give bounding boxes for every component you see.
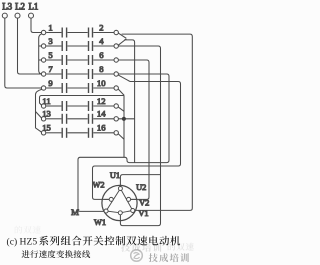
contact K7b bars: [88, 69, 90, 79]
motor M1 stator circle: [102, 185, 137, 220]
terminal W2 mid-left: [109, 197, 113, 201]
wire 6 to U2: [118, 60, 149, 199]
svg-text:8: 8: [99, 64, 103, 74]
junction dot 14: [122, 117, 126, 121]
svg-text:L2: L2: [15, 2, 25, 12]
terminal 10: [114, 86, 118, 90]
blade 10: [118, 89, 124, 95]
blade 8: [118, 75, 130, 81]
svg-text:4: 4: [99, 36, 104, 46]
terminal L3: [2, 13, 7, 18]
svg-text:6: 6: [99, 50, 104, 60]
svg-text:12: 12: [97, 96, 106, 106]
terminal 4: [114, 44, 118, 48]
wire tap to 5: [39, 59, 42, 61]
wire L2 to contact 7: [18, 18, 42, 74]
contact K5a bars: [61, 55, 63, 65]
motor winding triangle: [106, 189, 133, 213]
caption line 1 hanzi: [39, 236, 180, 246]
terminal 13: [41, 117, 45, 121]
contact row 15-16 wire: [46, 132, 61, 134]
caption line 2 hanzi: [22, 250, 91, 258]
terminal 9: [41, 86, 45, 90]
watermark logo: [131, 250, 143, 262]
svg-text:2: 2: [99, 22, 103, 32]
terminal U2 mid-right: [127, 197, 131, 201]
svg-text:U2: U2: [136, 183, 146, 192]
contact K13a bars: [61, 114, 63, 124]
wire 4 to V2: [118, 46, 160, 226]
svg-text:15: 15: [42, 123, 51, 133]
blade 4: [118, 39, 126, 45]
contact K1b bars: [88, 28, 90, 38]
blade 12 to column: [118, 107, 124, 111]
wire 2 to V1: [122, 34, 193, 210]
wire 14 to junction and column: [118, 118, 134, 120]
watermark faint upper: [121, 243, 161, 252]
contact K11b bars: [88, 101, 90, 111]
motor wire U2 segment: [131, 198, 137, 200]
svg-text:W1: W1: [94, 218, 106, 227]
terminal 16: [114, 131, 118, 135]
terminal 7: [41, 72, 45, 76]
watermark faint upper right: [168, 243, 194, 251]
wire bus 9-13-15: [36, 89, 43, 132]
contact row 1-2 wire: [46, 32, 61, 34]
terminal 3: [41, 44, 45, 48]
svg-text:11: 11: [42, 96, 50, 106]
contact K13b bars: [88, 114, 90, 124]
terminal 2: [114, 30, 118, 34]
svg-text:16: 16: [97, 123, 106, 133]
motor wire W2 into terminal: [104, 198, 109, 200]
svg-text:9: 9: [48, 78, 52, 88]
contact K15a bars: [61, 128, 63, 138]
wire 8 to W1 via wrap: [78, 74, 169, 211]
svg-text:V1: V1: [138, 209, 148, 218]
svg-text:5: 5: [48, 50, 52, 60]
terminal U1 apex: [118, 187, 122, 191]
wire L1 to contact 1: [31, 18, 42, 32]
contact K5b bars: [88, 55, 90, 65]
svg-text:U1: U1: [110, 171, 120, 180]
contact K9a bars: [61, 83, 63, 93]
terminal 6: [114, 58, 118, 62]
terminal V2 bottom-center: [118, 211, 122, 215]
terminal 12: [114, 104, 118, 108]
svg-text:14: 14: [97, 109, 106, 119]
svg-text:L1: L1: [28, 2, 38, 12]
contact K1a bars: [61, 28, 63, 38]
watermark text: [149, 253, 189, 262]
svg-text:W2: W2: [92, 180, 104, 189]
terminal 14: [114, 117, 118, 121]
terminal 5: [41, 58, 45, 62]
contact K11a bars: [61, 101, 63, 111]
svg-text:13: 13: [42, 109, 51, 119]
terminal 8: [114, 72, 118, 76]
watermark faint band left: [15, 226, 41, 234]
terminal 15: [41, 131, 45, 135]
contact K3b bars: [88, 41, 90, 51]
terminal 1: [41, 30, 45, 34]
wire tap to 13: [36, 112, 42, 119]
svg-text:(c) HZ5: (c) HZ5: [7, 236, 38, 247]
wire U1 riser: [120, 175, 160, 187]
wire from 10 to 11 wrap: [40, 96, 125, 106]
terminal L2: [15, 13, 20, 18]
contact row 9-10 wire: [46, 87, 61, 89]
terminal W1 bottom-left: [104, 209, 108, 213]
wire tap to 3: [39, 45, 42, 47]
svg-text:10: 10: [97, 78, 106, 88]
terminal L1: [29, 13, 34, 18]
wire bus 1-3-5-7: [39, 34, 43, 74]
contact K3a bars: [61, 41, 63, 51]
svg-text:M: M: [71, 207, 79, 217]
wire 8 to W2 via wrap: [93, 82, 181, 200]
svg-text:L3: L3: [2, 2, 12, 12]
contact K9b bars: [88, 83, 90, 93]
contact row 11-12 wire: [46, 105, 61, 107]
blade 16 to column: [118, 134, 124, 139]
svg-text:V2: V2: [139, 198, 149, 207]
wire 4 blade to W1 bus: [124, 40, 134, 163]
contact K15b bars: [88, 128, 90, 138]
contact row 5-6 wire: [46, 59, 61, 61]
wire L3 to contact 9: [5, 18, 42, 88]
blade 2: [118, 33, 126, 38]
terminal V1 bottom-right: [131, 209, 135, 213]
svg-text:3: 3: [48, 36, 52, 46]
contact row 13-14 wire: [46, 118, 61, 120]
contact K7a bars: [61, 69, 63, 79]
svg-text:1: 1: [48, 22, 52, 32]
contact row 7-8 wire: [46, 73, 61, 75]
svg-text:7: 7: [48, 64, 53, 74]
terminal 11: [41, 104, 45, 108]
wire 10-14-16 junction column: [123, 96, 125, 158]
contact row 3-4 wire: [46, 45, 61, 47]
